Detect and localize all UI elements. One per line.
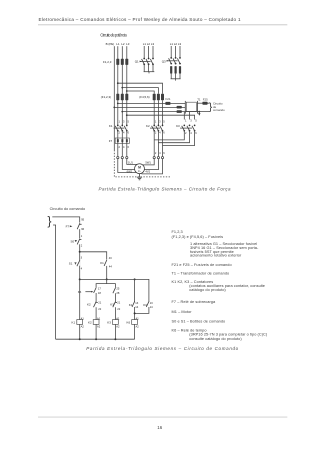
node tap L2	[121, 87, 123, 89]
svg-text:6W2: 6W2	[127, 169, 133, 173]
wire branch to K1 aux	[80, 252, 107, 260]
ground arrow at transformer	[198, 112, 200, 114]
coil K1	[77, 279, 83, 339]
transformer T1	[185, 101, 197, 114]
svg-text:A2: A2	[97, 324, 101, 328]
wire K3 out 2	[158, 131, 189, 143]
wire command supply B	[113, 107, 115, 109]
svg-text:A2: A2	[116, 324, 120, 328]
wire command return rail	[53, 225, 56, 339]
svg-text:21: 21	[117, 300, 120, 304]
wire motor feed right 3	[142, 159, 163, 174]
wire L1 vertical	[117, 46, 119, 156]
coil K2	[93, 320, 99, 340]
svg-text:A1: A1	[81, 316, 85, 320]
node bottom K3	[114, 338, 116, 340]
motor M1	[135, 164, 145, 174]
node bus left	[79, 278, 81, 280]
svg-text:A2: A2	[136, 324, 140, 328]
node bottom K2	[95, 338, 97, 340]
bracket under Q3 group	[171, 78, 181, 80]
wire tap3 to branch	[127, 91, 154, 94]
wire motor feed left 3	[127, 159, 137, 165]
wire K3 feed D	[126, 114, 128, 116]
svg-text:14: 14	[135, 305, 138, 309]
wire timer feed stub	[106, 279, 108, 283]
svg-text:B (PE): B (PE)	[106, 42, 115, 46]
node bus K6	[134, 278, 136, 280]
svg-text:K2: K2	[88, 320, 92, 324]
svg-text:T1 – Transformador de comando: T1 – Transformador de comando	[172, 271, 230, 275]
svg-text:Circuito do comando: Circuito do comando	[50, 207, 86, 211]
svg-text:K2: K2	[146, 124, 150, 128]
terminal circle V1	[121, 157, 123, 159]
terminal circle V2	[161, 157, 163, 159]
svg-text:K1: K1	[109, 124, 113, 128]
svg-text:5W1: 5W1	[145, 161, 151, 165]
contactor K2	[150, 125, 163, 132]
fuse F3	[125, 59, 128, 65]
svg-text:K3: K3	[143, 303, 147, 307]
fuse F4	[153, 94, 156, 100]
fuse F23	[177, 106, 182, 109]
svg-text:(F1,2,3): (F1,2,3)	[101, 95, 111, 99]
fuse F24	[177, 110, 182, 113]
svg-text:acionamento rotativo exterior: acionamento rotativo exterior	[190, 254, 242, 258]
svg-text:F7: F7	[66, 225, 70, 229]
svg-text:1U1: 1U1	[128, 161, 133, 165]
fuse in Q3 pole 3	[179, 66, 181, 74]
fuse F21	[165, 102, 170, 105]
wire K3 stub 2	[189, 112, 191, 120]
svg-text:21: 21	[98, 300, 101, 304]
svg-text:Circuito de potência: Circuito de potência	[100, 32, 127, 37]
svg-text:L1: L1	[116, 42, 120, 46]
svg-text:Eletromecânica – Comandos Elét: Eletromecânica – Comandos Elétricos – Pr…	[39, 17, 241, 22]
wire PE dashed to motor earth	[114, 150, 170, 177]
ground at motor	[137, 174, 142, 180]
svg-text:A1: A1	[116, 316, 120, 320]
svg-text:L3: L3	[126, 42, 130, 46]
fuse F25	[202, 102, 207, 105]
wire timer right down	[114, 293, 116, 301]
terminal circle U2	[157, 157, 159, 159]
wire timer left down	[95, 293, 97, 302]
wire K2 feed 2	[157, 100, 159, 156]
svg-text:F25: F25	[203, 98, 208, 102]
svg-text:K1: K1	[129, 303, 133, 307]
contact F7 NC	[77, 223, 81, 229]
svg-text:Partida Estrela-Triângulo Siem: Partida Estrela-Triângulo Siemens – Circ…	[99, 187, 231, 192]
contactor K3	[180, 125, 195, 132]
svg-text:consulte catálogo do produto): consulte catálogo do produto)	[189, 337, 242, 341]
svg-text:A1: A1	[97, 316, 101, 320]
coil K3	[113, 320, 119, 340]
node PE junction at transformer	[198, 111, 200, 113]
svg-text:S0 e S1 – Botões de comando: S0 e S1 – Botões de comando	[172, 320, 226, 324]
wire K3 int down	[114, 307, 116, 319]
wire T1 secondary out	[197, 102, 209, 104]
wire L2 vertical	[121, 46, 123, 156]
fuse F6	[161, 94, 164, 100]
svg-text:K1: K1	[72, 320, 76, 324]
wire tap2 to branch	[122, 88, 158, 94]
svg-text:K2: K2	[87, 303, 91, 307]
svg-text:T1: T1	[197, 98, 201, 102]
terminal circle W2	[153, 157, 155, 159]
svg-text:M1 – Motor: M1 – Motor	[172, 310, 193, 314]
push button S0 NC	[75, 239, 82, 245]
svg-text:comando: comando	[213, 108, 225, 112]
svg-text:13: 13	[135, 301, 138, 305]
node tap L3	[126, 90, 128, 92]
coil K6 timer	[132, 320, 138, 340]
svg-text:A2: A2	[81, 324, 85, 328]
fuse F3 second row	[125, 94, 128, 100]
legend block	[172, 230, 268, 341]
contact K1 aux NO	[104, 260, 107, 266]
timer K6 contact block	[94, 284, 116, 294]
svg-text:Q1: Q1	[135, 60, 139, 64]
contact gaps (wire breaks)	[118, 126, 195, 130]
svg-text:3~: 3~	[138, 169, 142, 173]
svg-text:F21 e F25 – Fusíveis de comand: F21 e F25 – Fusíveis de comando	[172, 263, 232, 267]
svg-text:F1,2,3: F1,2,3	[103, 60, 112, 64]
svg-text:4V2: 4V2	[145, 169, 150, 173]
wire bottom bus	[56, 338, 135, 340]
footer rule	[38, 416, 287, 418]
svg-text:A1: A1	[136, 316, 140, 320]
wire K1 seal vertical	[134, 279, 136, 301]
svg-text:S0: S0	[71, 239, 75, 243]
wire bus	[80, 279, 149, 301]
wire K2 feed 1	[153, 100, 155, 156]
fuse F5	[157, 94, 160, 100]
node bus K1aux	[106, 278, 108, 280]
contact K3 NC interlock	[113, 301, 117, 307]
svg-text:L1 L2 L3: L1 L2 L3	[143, 42, 155, 46]
svg-text:F7 – Relé de sobrecarga: F7 – Relé de sobrecarga	[172, 300, 216, 304]
svg-text:F7: F7	[109, 139, 113, 143]
wire command supply C	[121, 111, 123, 113]
detail group Q1 wires	[144, 46, 153, 72]
push button S1 NO	[75, 260, 80, 266]
node branch S1/K1	[79, 251, 81, 253]
svg-text:F21: F21	[166, 97, 171, 101]
svg-text:S1: S1	[69, 261, 73, 265]
svg-text:Partida Estrela-Triângulo Siem: Partida Estrela-Triângulo Siemens – Circ…	[86, 346, 238, 351]
overload relay F7	[115, 138, 129, 143]
contactor Q1 poles	[141, 58, 154, 66]
terminal circle U1	[117, 157, 119, 159]
node tap L1	[117, 82, 119, 84]
wire motor feed left 1	[118, 159, 137, 173]
wire K3 stub 1	[183, 112, 185, 120]
fuse in Q3 pole 1	[170, 66, 172, 74]
wire K3 out 1	[154, 131, 184, 140]
contact K2 NC interlock	[94, 301, 98, 307]
contactor K1	[114, 125, 128, 132]
svg-text:K1: K1	[100, 261, 104, 265]
node pair join	[134, 312, 136, 314]
wire S0 down	[79, 244, 81, 279]
contact K3 NO	[146, 301, 149, 307]
fuse in Q3 pole 2	[175, 66, 177, 74]
bracket under Q1 group	[144, 71, 155, 73]
wire command supply A	[117, 103, 119, 105]
svg-text:K3: K3	[110, 303, 114, 307]
fuse F2	[121, 59, 124, 65]
fuse F2 second row	[121, 94, 124, 100]
svg-text:K3: K3	[176, 124, 180, 128]
svg-text:(F4,5,6): (F4,5,6)	[139, 95, 149, 99]
contact K1 NO	[132, 301, 135, 307]
wire K3 out 3	[163, 131, 195, 146]
terminal circle W1	[126, 157, 128, 159]
svg-text:L2: L2	[121, 42, 125, 46]
wire command top	[52, 217, 79, 223]
wire F7 to S0	[79, 229, 81, 238]
wire L3 vertical	[126, 46, 128, 156]
wire motor feed right 1	[143, 159, 155, 165]
fuse F1 second row	[116, 94, 119, 100]
wire tap1 to branch	[118, 83, 163, 94]
wire K1 aux down	[106, 266, 108, 280]
svg-text:F1,2,3: F1,2,3	[172, 230, 183, 234]
wire K2 int down	[95, 307, 97, 319]
detail group Q3 wires	[171, 46, 180, 79]
svg-text:catálogo do produto): catálogo do produto)	[189, 288, 226, 292]
header rule	[38, 24, 287, 26]
svg-text:22: 22	[117, 307, 120, 311]
svg-text:22: 22	[98, 307, 101, 311]
svg-text:(F1,2,3) e (F4,5,6) – Fusíveis: (F1,2,3) e (F4,5,6) – Fusíveis	[172, 235, 224, 239]
svg-text:16: 16	[157, 425, 162, 430]
svg-text:}: }	[47, 214, 51, 228]
contactor Q3 poles	[168, 57, 181, 65]
svg-text:K3: K3	[107, 320, 111, 324]
fuse F1	[116, 59, 119, 65]
wire PE vertical	[113, 46, 115, 150]
wire K2 feed 3	[162, 100, 164, 156]
svg-text:K6: K6	[127, 320, 131, 324]
wire motor feed left 2	[122, 159, 134, 170]
wire pair join	[135, 307, 149, 313]
svg-text:Q3: Q3	[162, 59, 166, 63]
node bottom K1	[79, 338, 81, 340]
wire motor feed right 2	[144, 159, 158, 170]
svg-text:L1 L2 L3: L1 L2 L3	[170, 42, 182, 46]
